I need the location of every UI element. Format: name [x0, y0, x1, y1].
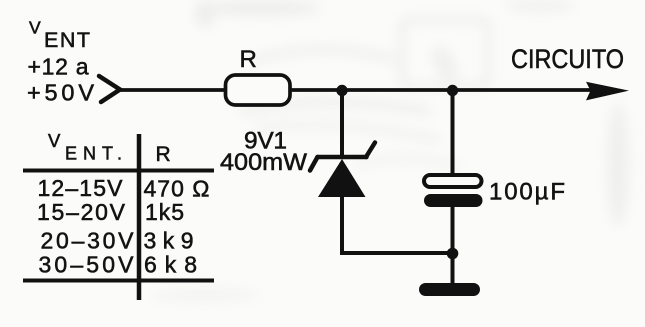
table row 3 [41, 228, 194, 254]
table bottom rule [23, 279, 214, 283]
svg-text:3k9: 3k9 [144, 228, 194, 254]
table header VENT [48, 130, 122, 164]
svg-text:R: R [156, 143, 171, 166]
wire input to resistor [119, 88, 227, 92]
svg-text:R: R [240, 46, 257, 73]
svg-text:470 Ω: 470 Ω [144, 176, 210, 202]
ground bar [419, 283, 480, 296]
svg-text:V: V [29, 18, 41, 38]
svg-text:1k5: 1k5 [145, 199, 184, 225]
zener diode D1 cathode bar [310, 143, 375, 171]
zener diode D1 triangle [318, 159, 366, 197]
svg-text:CIRCUITO: CIRCUITO [511, 44, 624, 74]
table row 1 [38, 175, 210, 202]
junction node A (resistor/zener) [336, 85, 347, 96]
svg-text:+50V: +50V [27, 80, 94, 106]
wire capacitor down to ground node [451, 207, 455, 284]
table top rule [23, 169, 214, 173]
wire zener to ground node [340, 251, 452, 255]
junction node B (cap branch) [447, 85, 458, 96]
output arrowhead [586, 82, 629, 101]
svg-text:400mW: 400mW [220, 149, 308, 176]
capacitor C1 top plate [424, 175, 482, 187]
node VENT label [27, 18, 94, 106]
svg-text:+12 a: +12 a [28, 54, 89, 80]
table column divider [137, 134, 142, 300]
wire node B down to capacitor [451, 90, 455, 177]
resistor R [226, 75, 291, 105]
svg-text:100µF: 100µF [489, 179, 565, 206]
svg-text:ENT: ENT [44, 28, 90, 52]
capacitor C1 bottom plate [424, 194, 483, 207]
table row 4 [39, 252, 198, 278]
svg-text:V: V [48, 130, 61, 151]
table row 2 [37, 199, 184, 225]
junction node C (ground) [447, 248, 459, 260]
wire node A down to zener [340, 90, 344, 157]
wire resistor to output arrow [290, 88, 592, 92]
input terminal chevron [99, 76, 120, 102]
svg-text:6k8: 6k8 [144, 252, 197, 278]
wire zener anode down [340, 195, 344, 255]
